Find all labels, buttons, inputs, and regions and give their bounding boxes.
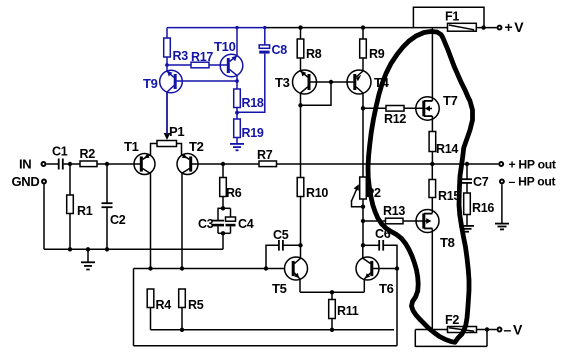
svg-text:C1: C1 (52, 145, 68, 159)
wire left feedback riser (133, 269, 135, 346)
wire R1 column (69, 164, 71, 195)
transistor T7 MOSFET (416, 93, 458, 120)
wire T7 source to R14 (431, 116, 433, 131)
svg-text:F1: F1 (445, 10, 459, 24)
capacitor C1 (52, 145, 68, 170)
node junction C8 top (263, 26, 266, 29)
node +V terminal (498, 26, 502, 30)
node junction base riser (329, 80, 333, 84)
wire F1 to +V (476, 27, 496, 29)
svg-text:C4: C4 (238, 217, 254, 231)
wire P1 left to T1 (151, 144, 158, 156)
svg-text:T5: T5 (272, 281, 287, 296)
resistor R11 (329, 292, 359, 330)
node junction R5 bottom (180, 328, 184, 332)
node junction F2 right (485, 327, 489, 331)
transistor T6 (356, 245, 394, 296)
potentiometer P2 (352, 177, 382, 207)
wire T3 node to R10 (300, 105, 302, 177)
capacitor C7 (462, 164, 489, 189)
svg-text:C5: C5 (273, 228, 289, 242)
wire T8 source column down (431, 228, 433, 329)
wire T6 base to riser (373, 268, 399, 270)
wire -V riser down (486, 330, 488, 347)
resistor R10 (297, 178, 328, 246)
svg-text:T10: T10 (214, 39, 236, 54)
node junction T6 base C6 (395, 266, 399, 270)
svg-text:R14: R14 (436, 142, 458, 156)
node junction R14 R15 output (430, 162, 434, 166)
node junction R11 bottom (330, 328, 334, 332)
ground under -HP out (495, 224, 509, 230)
svg-text:R10: R10 (306, 186, 328, 200)
svg-text:R17: R17 (191, 50, 213, 64)
wire C3 C4 to ground bus (222, 233, 224, 249)
wire bus B1 left (134, 345, 398, 347)
capacitor C3 (198, 208, 224, 233)
wire T7 drain column (431, 28, 433, 101)
node junction C6 left (361, 243, 365, 247)
node junction R1 tap (68, 162, 72, 166)
wire ground bus (44, 248, 223, 250)
node junction R6 tap (221, 162, 225, 166)
wire P2 column down (362, 199, 364, 245)
wire F2 to -V (477, 329, 497, 331)
resistor R6 (220, 178, 242, 201)
svg-text:R12: R12 (384, 112, 406, 126)
transistor T5 (272, 245, 308, 296)
svg-text:+ HP out: + HP out (509, 157, 556, 171)
ground (81, 249, 95, 269)
resistor R16 (464, 183, 495, 215)
svg-text:T1: T1 (124, 139, 139, 154)
svg-text:V: V (514, 19, 524, 35)
wire C2 column (106, 164, 108, 203)
svg-text:R16: R16 (472, 201, 494, 215)
transistor T8 MOSFET (416, 210, 455, 251)
svg-text:T3: T3 (275, 75, 290, 90)
transistor T3 (275, 70, 317, 105)
wire T3 base to T4 base (310, 81, 353, 83)
wire top rail blue part (167, 27, 265, 29)
svg-text:V: V (513, 322, 523, 338)
svg-text:R8: R8 (306, 47, 322, 61)
resistor R8 (297, 28, 322, 71)
svg-text:T2: T2 (189, 139, 204, 154)
wire T4 node to P2 (362, 108, 364, 177)
transistor T4 (347, 70, 390, 108)
node junction C5 R10 T5 (298, 243, 302, 247)
resistor R9 (360, 28, 385, 71)
resistor R7 (257, 148, 277, 167)
node junction C2 bottom (105, 247, 109, 251)
node junction C3 C4 top (221, 206, 225, 210)
svg-text:R11: R11 (337, 304, 359, 318)
node junction T4 collector R12 (361, 106, 365, 110)
resistor R1 (67, 195, 93, 218)
wire R1 to ground bus (69, 214, 71, 250)
svg-text:F2: F2 (445, 313, 459, 327)
wire R6 top (222, 164, 224, 178)
node junction R9 top (361, 25, 365, 29)
svg-text:– HP out: – HP out (509, 174, 556, 188)
resistor R5 (179, 289, 204, 330)
resistor R12 (363, 106, 423, 127)
wire R6 to C3 C4 (222, 197, 224, 209)
wire bus B2 (415, 330, 487, 347)
resistor R14 (429, 132, 458, 165)
node junction R8 top (298, 25, 302, 29)
node junction C2 tap (105, 162, 109, 166)
wire R2 to T1 base (97, 163, 140, 165)
wire output rail R7 to +HP out (277, 163, 499, 165)
wire F2 left (415, 329, 447, 331)
svg-text:R5: R5 (188, 298, 204, 312)
node junction ground tap (86, 247, 90, 251)
svg-text:R19: R19 (242, 126, 264, 140)
node +HP out terminal (499, 162, 503, 166)
node junction F1 right (481, 25, 485, 29)
svg-text:T8: T8 (440, 235, 455, 250)
svg-text:IN: IN (19, 157, 31, 172)
svg-text:R1: R1 (77, 204, 93, 218)
node IN terminal (42, 162, 46, 166)
resistor R4 (147, 289, 171, 330)
svg-text:C3: C3 (198, 217, 214, 231)
wire top rail black part (265, 27, 448, 29)
node junction T10 emitter T9 base (235, 79, 239, 83)
wire T1 collector down (150, 173, 152, 269)
svg-text:R6: R6 (226, 186, 242, 200)
wire bus A R4 R5 R11 (151, 329, 395, 331)
node junction R18 R19 C8 (235, 111, 239, 115)
wire T2 collector down (181, 173, 183, 269)
node junction C3 C4 bottom (221, 231, 225, 235)
svg-text:–: – (504, 322, 512, 338)
svg-text:GND: GND (12, 174, 40, 189)
svg-text:R13: R13 (383, 204, 405, 218)
wire C2 to ground bus (106, 207, 108, 249)
svg-text:R2: R2 (80, 147, 96, 161)
node junction R13 tap (361, 219, 365, 223)
svg-text:T9: T9 (143, 76, 158, 91)
wire emitter bus T5 T6 (300, 291, 364, 293)
capacitor C5 (266, 228, 301, 269)
svg-text:P1: P1 (169, 124, 184, 139)
wire -HP out down (501, 184, 503, 223)
node -HP out terminal (500, 179, 504, 183)
node junction R1 bottom (68, 247, 72, 251)
fuse F2 (445, 313, 477, 333)
node junction R5 top (180, 266, 184, 270)
wire T6 base riser down (396, 269, 398, 346)
node junction R11 top (330, 290, 334, 294)
resistor R2 (80, 147, 98, 167)
resistor R19 (234, 113, 264, 144)
node junction P2 wiper (361, 205, 365, 209)
svg-text:R7: R7 (257, 148, 273, 162)
resistor R17 (167, 50, 228, 68)
svg-text:C2: C2 (110, 213, 126, 227)
capacitor C6 (363, 227, 397, 269)
resistor R13 (363, 204, 423, 224)
node junction T10 collector top (235, 26, 238, 29)
potentiometer P1 (157, 92, 184, 147)
transistor T1 (124, 139, 155, 175)
svg-text:+: + (505, 19, 513, 35)
node -V terminal (498, 328, 502, 332)
resistor R15 (429, 164, 460, 213)
fuse F1 (413, 7, 484, 31)
node junction R4 top (148, 266, 152, 270)
resistor R3 (164, 28, 189, 65)
svg-text:R9: R9 (369, 47, 385, 61)
freehand marker loop around output stage (368, 32, 473, 343)
ground under R19 (230, 144, 244, 150)
transistor T2 (177, 139, 204, 175)
wire P1 right to T2 (177, 144, 182, 156)
node junction T3 emitter (298, 103, 302, 107)
wire C3 C4 top bar (218, 207, 231, 209)
wire base bus T5 (134, 268, 286, 270)
svg-text:T6: T6 (379, 281, 394, 296)
wire C3 C4 bottom bar (218, 232, 231, 234)
node junction R3 R17 T9 (165, 63, 169, 67)
svg-text:T7: T7 (443, 93, 458, 108)
wire GND down (43, 184, 45, 249)
svg-text:C8: C8 (272, 43, 288, 57)
wire IN to C1 (47, 163, 59, 165)
wire T2 base to R6 node (192, 163, 259, 165)
ground under R16 (460, 215, 474, 232)
wire T9 base to T10 emitter (177, 80, 237, 82)
node junction C7 tap (465, 162, 469, 166)
resistor R18 (234, 81, 264, 113)
svg-text:R18: R18 (242, 96, 264, 110)
transistor T9 (143, 65, 182, 135)
capacitor C8 (238, 28, 287, 113)
wire C1 to R2 (64, 163, 80, 165)
svg-text:R3: R3 (173, 49, 189, 63)
transistor T10 (214, 28, 243, 81)
capacitor C4 (226, 208, 254, 233)
node GND terminal (42, 180, 46, 184)
svg-text:C7: C7 (473, 175, 489, 189)
capacitor C2 (102, 203, 126, 227)
svg-text:R4: R4 (156, 298, 172, 312)
wire riser T3 emitter to base (301, 82, 332, 105)
node junction C5 left (264, 266, 268, 270)
